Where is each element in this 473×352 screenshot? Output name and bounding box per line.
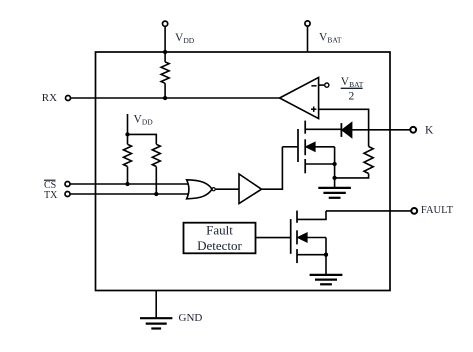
- wire R4 bottom to ground node: [335, 174, 369, 178]
- svg-text:VDD: VDD: [134, 114, 154, 127]
- wire VDD to resistor R1: [164, 52, 166, 62]
- wire RX line: [71, 97, 280, 99]
- wire comparator + input: [319, 109, 369, 146]
- resistor R1: [161, 62, 169, 83]
- ground G3 GND pin: [140, 318, 172, 328]
- terminal FAULT: [411, 208, 417, 214]
- svg-text:GND: GND: [179, 312, 203, 324]
- svg-text:FAULT: FAULT: [421, 205, 454, 216]
- label CS overline: [44, 180, 56, 191]
- svg-text:TX: TX: [44, 190, 58, 201]
- svg-text:Detector: Detector: [197, 238, 242, 253]
- wire R3 to TX line: [155, 167, 157, 195]
- wire buffer out to Q1 gate: [262, 147, 283, 189]
- transistor Q2: [291, 211, 326, 275]
- svg-text:VDD: VDD: [175, 32, 195, 45]
- IC boundary box: [96, 52, 391, 291]
- svg-text:2: 2: [349, 91, 355, 103]
- junction R1 on RX line: [163, 96, 167, 100]
- wire R1 to RX line: [164, 83, 166, 98]
- transistor Q1: [298, 121, 341, 174]
- buffer U3: [239, 174, 262, 204]
- terminal K: [410, 127, 416, 133]
- svg-text:Fault: Fault: [206, 222, 233, 237]
- wire R2 to CS line: [127, 167, 129, 185]
- op-amp U1 comparator: [280, 77, 329, 118]
- svg-text:RX: RX: [42, 92, 57, 104]
- wire gate out to buffer: [216, 188, 239, 190]
- terminal VBAT: [305, 21, 310, 52]
- junction R2 on CS line: [125, 182, 129, 186]
- wire VDD stem: [127, 114, 129, 134]
- ground G1: [318, 188, 351, 198]
- junction Q2 source: [324, 253, 328, 257]
- terminal VDD: [163, 21, 168, 52]
- wire K line: [352, 129, 411, 131]
- wire fault detector to Q2 gate: [256, 237, 291, 239]
- svg-text:VBAT: VBAT: [341, 76, 364, 89]
- terminal CS: [65, 182, 70, 187]
- label VBAT/2: [341, 76, 364, 103]
- junction pull-up top: [125, 132, 129, 136]
- wire Q1 source to ground: [334, 147, 336, 188]
- ground G2: [310, 275, 343, 284]
- resistor R2: [124, 144, 132, 166]
- junction R3 on TX line: [154, 192, 158, 196]
- junction R4 return: [332, 176, 336, 180]
- diode D1: [341, 123, 351, 137]
- resistor R4: [364, 147, 373, 174]
- resistor R3: [152, 144, 160, 166]
- wire left pull-up top: [127, 134, 129, 144]
- wire GND pin: [155, 291, 157, 319]
- Fault Detector block: [184, 222, 256, 253]
- gate U2 NOR: [187, 180, 216, 199]
- terminal TX: [65, 192, 70, 197]
- svg-text:VBAT: VBAT: [319, 32, 342, 45]
- wire pull-up top rail: [128, 134, 157, 144]
- wire FAULT line: [326, 210, 411, 212]
- junction VDD at box top: [163, 50, 167, 54]
- junction Q1 source: [332, 162, 336, 166]
- wire Q1 gate lead: [282, 146, 298, 148]
- wire TX line: [71, 193, 189, 195]
- wire CS line: [71, 183, 189, 185]
- svg-text:K: K: [425, 125, 434, 137]
- terminal RX: [66, 96, 71, 101]
